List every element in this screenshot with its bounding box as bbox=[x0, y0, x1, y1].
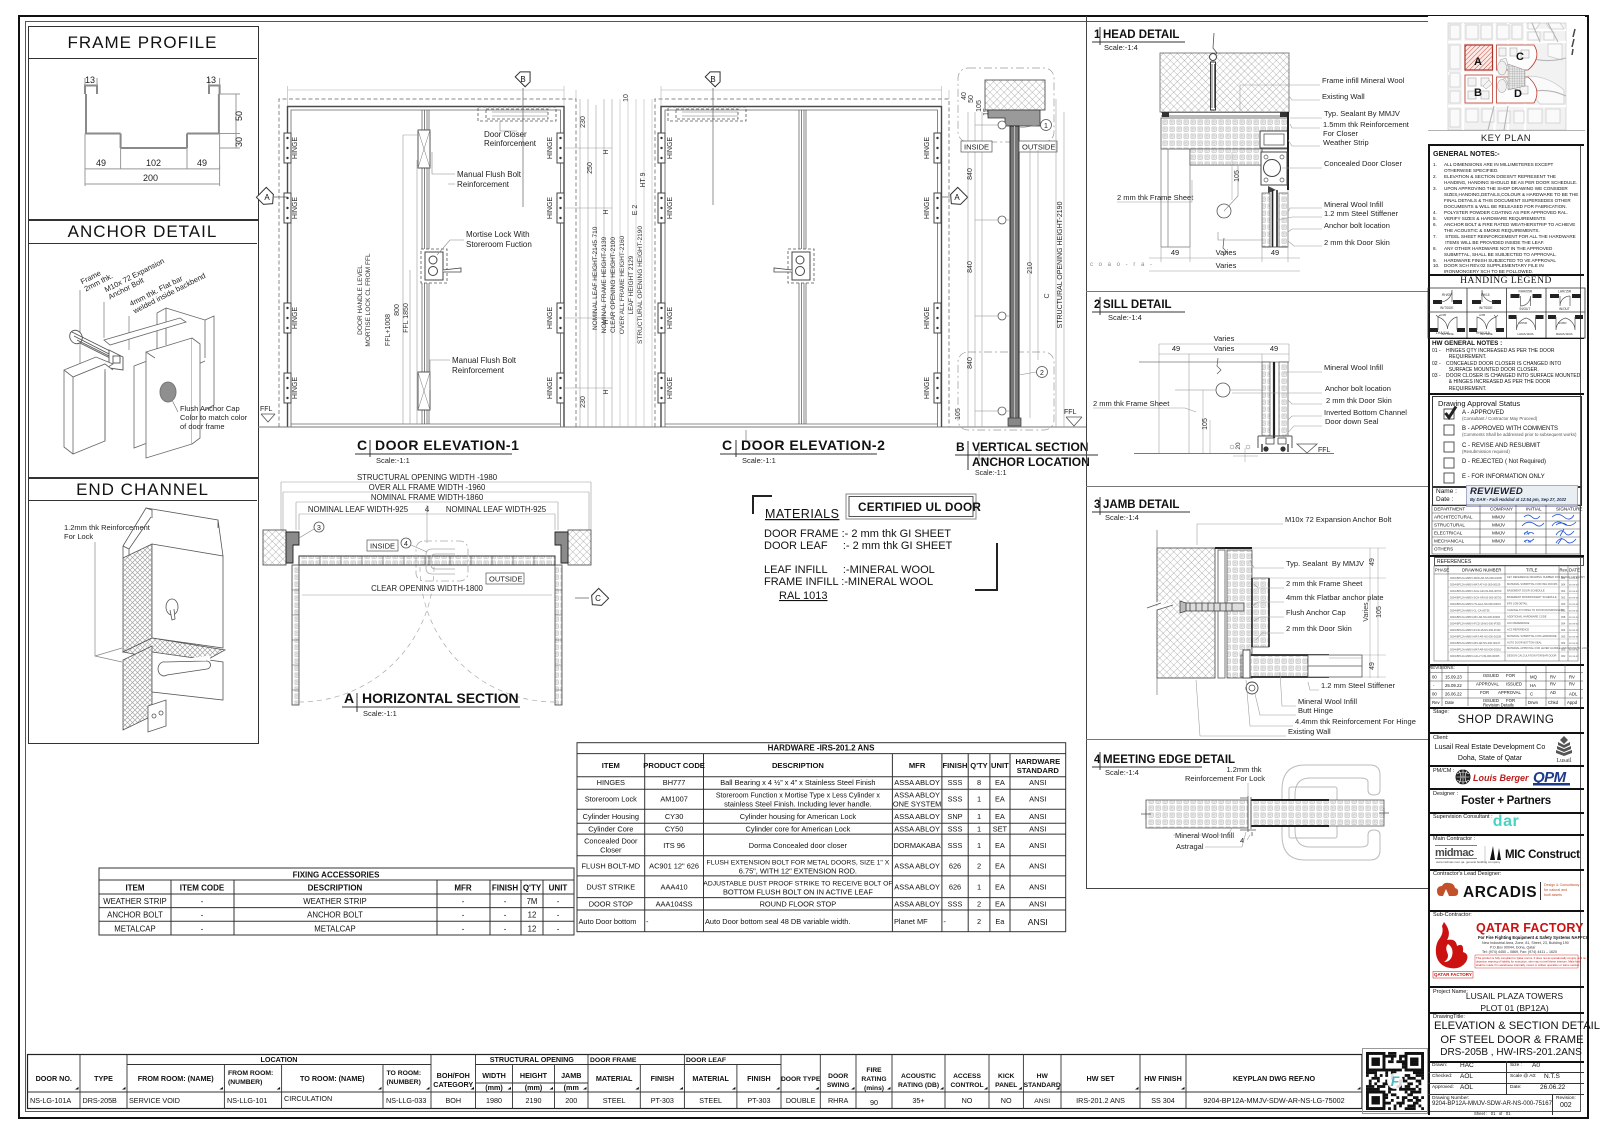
svg-text:SWING: SWING bbox=[827, 1082, 850, 1089]
svg-text:ACO REFERENCE: ACO REFERENCE bbox=[1507, 621, 1530, 625]
door leaf bbox=[1262, 362, 1270, 436]
svg-text:RHA/11A: RHA/11A bbox=[1476, 331, 1491, 335]
svg-text:CONTROL: CONTROL bbox=[950, 1082, 983, 1089]
main contractor bbox=[1428, 834, 1584, 836]
right box with cap bbox=[146, 338, 192, 458]
name/date + reviewed stamp bbox=[1432, 487, 1582, 506]
door frame bbox=[288, 107, 942, 428]
leader lines bbox=[80, 290, 129, 372]
svg-text:MMJV: MMJV bbox=[1492, 531, 1506, 536]
keyhole bbox=[166, 599, 178, 615]
svg-text:ARCADIS: ARCADIS bbox=[1463, 884, 1537, 901]
svg-text:MIC Construct: MIC Construct bbox=[1505, 849, 1580, 861]
svg-text:For Fire Fighting Equipment &: For Fire Fighting Equipment & Safety Sys… bbox=[1478, 935, 1590, 940]
svg-text:STANDARD: STANDARD bbox=[1024, 1082, 1061, 1089]
svg-text:PANEL: PANEL bbox=[995, 1082, 1017, 1089]
svg-text:ELECTRICAL: ELECTRICAL bbox=[1434, 531, 1463, 536]
anchor detail drawing bbox=[0, 0, 260, 480]
svg-text:(mm): (mm) bbox=[485, 1083, 503, 1092]
svg-text:for natural and: for natural and bbox=[1544, 888, 1567, 892]
sub-contractor / QATAR FACTORY bbox=[1428, 910, 1584, 912]
key plan road grid bbox=[1448, 23, 1566, 130]
closer ghost center bbox=[416, 541, 468, 581]
svg-text:APPROVAL: APPROVAL bbox=[1498, 690, 1521, 695]
svg-text:xx-xx-xx: xx-xx-xx bbox=[1569, 584, 1579, 587]
section marker B elev1 bbox=[515, 67, 535, 87]
dim text rows bbox=[308, 473, 547, 514]
svg-text:-: - bbox=[1433, 683, 1435, 688]
svg-text:www.midmac.com.qa general bui: www.midmac.com.qa general building compa… bbox=[1436, 860, 1501, 864]
butt hinge bbox=[1243, 650, 1250, 678]
svg-text:TITLE: TITLE bbox=[1526, 568, 1538, 573]
svg-text:00: 00 bbox=[1432, 675, 1437, 680]
frame profile channel outline bbox=[85, 86, 220, 149]
frame profile panel bbox=[28, 26, 259, 221]
svg-text:FINISH: FINISH bbox=[747, 1074, 771, 1083]
svg-text:15.09.23: 15.09.23 bbox=[1445, 675, 1462, 680]
svg-text:DOUBLE: DOUBLE bbox=[786, 1096, 816, 1105]
svg-text:ACCESS: ACCESS bbox=[953, 1073, 981, 1080]
svg-text:90: 90 bbox=[870, 1098, 878, 1107]
flush anchor cap bbox=[160, 382, 176, 402]
svg-text:BOH/FOH: BOH/FOH bbox=[437, 1071, 470, 1080]
svg-text:(NUMBER): (NUMBER) bbox=[387, 1079, 421, 1086]
svg-text:IN/TSIDE: IN/TSIDE bbox=[1479, 306, 1492, 310]
inner buildings bbox=[1468, 48, 1529, 99]
svg-text:TO ROOM:: TO ROOM: bbox=[387, 1070, 422, 1077]
door leaves plan strip bbox=[299, 556, 555, 565]
open leaves vertical bbox=[292, 565, 299, 705]
svg-text:A/05: A/05 bbox=[1479, 313, 1486, 317]
svg-text:9204-BP12A-MMJV-SDW-AR-NS-LG-7: 9204-BP12A-MMJV-SDW-AR-NS-LG-75002 bbox=[1203, 1096, 1344, 1105]
svg-text:MATERIAL SUBMITTAL FOR NSH DOO: MATERIAL SUBMITTAL FOR NSH DOORS bbox=[1507, 582, 1558, 586]
svg-text:(Resubmission required): (Resubmission required) bbox=[1462, 449, 1510, 454]
bottom plate bbox=[148, 700, 166, 732]
project name bbox=[1428, 986, 1584, 988]
svg-text:E - FOR INFORMATION ONLY: E - FOR INFORMATION ONLY bbox=[1462, 474, 1545, 480]
frame channel boxes isometric bbox=[64, 308, 214, 458]
svg-text:KEYPLAN DWG REF.NO: KEYPLAN DWG REF.NO bbox=[1233, 1074, 1316, 1083]
svg-text:D: D bbox=[1514, 88, 1522, 100]
existing wall bbox=[1157, 548, 1215, 678]
svg-text:005: 005 bbox=[1561, 635, 1566, 639]
svg-text:MQ: MQ bbox=[1530, 675, 1538, 680]
door leaf horizontal bbox=[1241, 655, 1308, 677]
svg-text:LHRA/11RA: LHRA/11RA bbox=[1518, 332, 1534, 336]
svg-text:DOOR: DOOR bbox=[828, 1073, 848, 1080]
svg-text:STRUCTURAL OPENING: STRUCTURAL OPENING bbox=[490, 1055, 575, 1064]
svg-text:xx-xx-xx: xx-xx-xx bbox=[1569, 603, 1579, 606]
right dims bbox=[1370, 548, 1378, 678]
motorway curves right bbox=[1488, 23, 1566, 130]
svg-text:D - REJECTED ( Not Required): D - REJECTED ( Not Required) bbox=[1462, 459, 1546, 465]
svg-text:9204-BP12A-MMJV-RFI-AR-NS-000-: 9204-BP12A-MMJV-RFI-AR-NS-000-00092 bbox=[1450, 615, 1501, 619]
svg-text:RH/05: RH/05 bbox=[1442, 293, 1451, 297]
svg-text:xx-xx-xx: xx-xx-xx bbox=[1569, 636, 1579, 639]
svg-text:Rev.: Rev. bbox=[1560, 568, 1568, 573]
svg-text:BOH: BOH bbox=[445, 1096, 461, 1105]
svg-text:PT-303: PT-303 bbox=[651, 1096, 674, 1105]
svg-text:Date: Date bbox=[1445, 700, 1455, 705]
svg-text:FROM ROOM:: FROM ROOM: bbox=[228, 1070, 273, 1077]
callout rounded boxes bbox=[958, 68, 1054, 430]
door pocket bbox=[1252, 578, 1269, 647]
svg-text:(mm): (mm) bbox=[525, 1083, 543, 1092]
head labels right bbox=[1322, 76, 1410, 247]
floor line FFL bbox=[258, 426, 1086, 428]
left hatched face top bbox=[123, 544, 152, 652]
svg-text:ARCHITECTURAL: ARCHITECTURAL bbox=[1434, 515, 1473, 520]
svg-text:STRUCTURAL: STRUCTURAL bbox=[1434, 523, 1465, 528]
svg-text:FINISH: FINISH bbox=[651, 1074, 675, 1083]
svg-text:ADDITIONAL HARDWARE CODE: ADDITIONAL HARDWARE CODE bbox=[1507, 615, 1547, 619]
svg-text:xx-xx-xx: xx-xx-xx bbox=[1569, 610, 1579, 613]
svg-text:008: 008 bbox=[1561, 615, 1566, 619]
svg-text:NS-LLG-033: NS-LLG-033 bbox=[386, 1096, 426, 1105]
rotated height dim labels between elevations bbox=[592, 226, 644, 344]
svg-text:HW FINISH: HW FINISH bbox=[1144, 1074, 1182, 1083]
end channel drawing bbox=[0, 0, 260, 760]
anchor detail panel bbox=[28, 219, 259, 479]
svg-text:004: 004 bbox=[1561, 583, 1566, 587]
jamb labels bbox=[1286, 559, 1416, 736]
vertical section titles bbox=[956, 440, 1090, 469]
svg-text:NS-LLG-101: NS-LLG-101 bbox=[227, 1096, 267, 1105]
svg-text:NO: NO bbox=[1001, 1096, 1012, 1105]
svg-text:EPS JOB DETAIL: EPS JOB DETAIL bbox=[1507, 602, 1528, 606]
anchor circles bbox=[998, 121, 1006, 415]
svg-text:xx-xx-xx: xx-xx-xx bbox=[1569, 577, 1579, 580]
svg-text:RV: RV bbox=[1569, 675, 1575, 680]
svg-text:DOOR TYPE: DOOR TYPE bbox=[781, 1076, 821, 1083]
svg-text:R/05R: R/05R bbox=[1558, 321, 1567, 325]
QR code bbox=[1365, 1051, 1425, 1111]
svg-text:9204-BP12A-MMJV-MAT-AR-NS-000-: 9204-BP12A-MMJV-MAT-AR-NS-000-00109 bbox=[1450, 635, 1502, 639]
left box bbox=[64, 357, 113, 454]
door slab bbox=[1010, 126, 1019, 422]
svg-text:Y.K: Y.K bbox=[1524, 539, 1532, 544]
central towers bbox=[1508, 64, 1525, 90]
top dim line elev1 bbox=[288, 86, 577, 106]
svg-text:RV: RV bbox=[1550, 675, 1556, 680]
svg-text:004: 004 bbox=[1561, 641, 1566, 645]
designer bbox=[1428, 788, 1584, 790]
svg-text:PT-303: PT-303 bbox=[747, 1096, 770, 1105]
svg-text:R/05R: R/05R bbox=[1519, 321, 1528, 325]
finder squares bbox=[1367, 1053, 1422, 1108]
flat bar diagonal bbox=[104, 318, 186, 345]
svg-text:ACS REFERENCE: ACS REFERENCE bbox=[1507, 628, 1529, 632]
svg-text:Chkd: Chkd bbox=[1548, 700, 1559, 705]
svg-text:MATERIAL SUBMITTAL FOR HARDWAR: MATERIAL SUBMITTAL FOR HARDWARE bbox=[1507, 634, 1557, 638]
svg-text:FROM ROOM: (NAME): FROM ROOM: (NAME) bbox=[138, 1074, 214, 1083]
svg-text:BASEMENT DOOR SCHEDULE: BASEMENT DOOR SCHEDULE bbox=[1507, 589, 1545, 593]
door leaves bbox=[1146, 800, 1248, 828]
svg-text:9204-BP12A-MMJV-IFCD-18-NS-000: 9204-BP12A-MMJV-IFCD-18-NS-000-IF305 bbox=[1450, 622, 1501, 626]
svg-text:002: 002 bbox=[1561, 589, 1566, 593]
svg-text:(Comments Shall be addressed p: (Comments Shall be addressed prior to su… bbox=[1462, 432, 1577, 437]
frame profile drawing bbox=[0, 0, 260, 200]
front face top bbox=[152, 544, 223, 648]
circled detail numbers bbox=[1037, 120, 1052, 378]
big C ghost bbox=[1282, 765, 1380, 860]
svg-text:IN/OUT: IN/OUT bbox=[1559, 307, 1570, 311]
sill labels bbox=[1324, 363, 1407, 426]
svg-text:Lusail: Lusail bbox=[1557, 758, 1572, 764]
svg-text:P.O.Box 90044, Doha, Qatar: P.O.Box 90044, Doha, Qatar bbox=[1490, 946, 1536, 950]
svg-text:9204-BP12A-MMJV-SCH-AR-NS-000-: 9204-BP12A-MMJV-SCH-AR-NS-000-00750 bbox=[1450, 596, 1502, 600]
svg-text:(mins): (mins) bbox=[864, 1085, 884, 1092]
svg-text:DEPARTMENT: DEPARTMENT bbox=[1434, 507, 1465, 512]
svg-text:005: 005 bbox=[1561, 609, 1566, 613]
swing arcs bbox=[299, 567, 555, 702]
svg-text:MATERIAL: MATERIAL bbox=[596, 1074, 633, 1083]
contractor's lead designer / ARCADIS bbox=[1428, 869, 1584, 871]
svg-text:xx-xx-xx: xx-xx-xx bbox=[1569, 623, 1579, 626]
svg-text:xx-xx-xx: xx-xx-xx bbox=[1569, 649, 1579, 652]
svg-text:ADL: ADL bbox=[1569, 692, 1578, 697]
block D wing bbox=[1497, 77, 1537, 103]
embedded anchor bolt bbox=[1210, 54, 1217, 61]
door closer reinforcement dashed box elev1 bbox=[478, 107, 556, 121]
svg-text:Design & Consultancy: Design & Consultancy bbox=[1544, 883, 1580, 887]
FFL marker left bbox=[261, 414, 275, 422]
svg-text:RHRA: RHRA bbox=[828, 1096, 849, 1105]
existing wall head bbox=[1160, 53, 1289, 112]
svg-text:HW: HW bbox=[1037, 1073, 1049, 1080]
door closer reinforcement dashed box elev2 (top-left) bbox=[668, 107, 746, 121]
stage bbox=[1428, 707, 1584, 709]
blue signatures bbox=[1522, 515, 1576, 545]
floor break marks bbox=[746, 430, 990, 459]
svg-text:MATERIAL: MATERIAL bbox=[692, 1074, 729, 1083]
back channel bbox=[157, 308, 214, 420]
svg-text:9204-BP12A-MMJV-MAT-AR-NS-000-: 9204-BP12A-MMJV-MAT-AR-NS-000-00210 bbox=[1450, 648, 1502, 652]
svg-text:xx-xx-xx: xx-xx-xx bbox=[1569, 642, 1579, 645]
general notes bbox=[1433, 147, 1579, 275]
anchor bolt cylinder bbox=[67, 328, 123, 370]
svg-text:NO: NO bbox=[962, 1096, 973, 1105]
svg-text:1980: 1980 bbox=[486, 1096, 502, 1105]
svg-text:004: 004 bbox=[1561, 622, 1566, 626]
svg-text:IRS-201.2 ANS: IRS-201.2 ANS bbox=[1076, 1096, 1125, 1105]
svg-text:Drwn: Drwn bbox=[1528, 700, 1539, 705]
svg-text:RATING: RATING bbox=[861, 1076, 886, 1083]
left rotated text stack elev2 bbox=[632, 172, 647, 215]
A marker left bbox=[256, 187, 277, 208]
circled refs bbox=[314, 522, 324, 532]
svg-text:STEEL: STEEL bbox=[603, 1096, 626, 1105]
sealant bbox=[1161, 113, 1288, 117]
door leaf below bbox=[1262, 193, 1270, 247]
svg-text:Appd: Appd bbox=[1567, 700, 1578, 705]
svg-text:MMJV: MMJV bbox=[1492, 515, 1506, 520]
frame head mineral wool bbox=[1161, 118, 1288, 149]
inverted bottom channel bbox=[1258, 436, 1292, 448]
svg-text:New Industrial Area, Zone, 81,: New Industrial Area, Zone, 81, Street, 2… bbox=[1482, 941, 1569, 945]
svg-text:CHANGE AT FINISH TO DOOR IRONM: CHANGE AT FINISH TO DOOR IRONMONGERY bbox=[1507, 608, 1565, 612]
block B bbox=[1465, 75, 1493, 103]
middle step box bbox=[134, 358, 155, 448]
svg-text:LH/15: LH/15 bbox=[1481, 293, 1490, 297]
svg-text:DOOR LEAF: DOOR LEAF bbox=[686, 1057, 726, 1064]
key plan bbox=[1428, 16, 1585, 144]
hinges elevation-1 bbox=[284, 133, 564, 403]
svg-text:RV: RV bbox=[1569, 682, 1575, 687]
lusail tree logo bbox=[1548, 735, 1580, 763]
svg-text:002: 002 bbox=[1561, 654, 1566, 658]
QR corner brackets bbox=[1362, 1048, 1428, 1114]
structural opening dashed outline bbox=[279, 99, 576, 427]
svg-text:SS 304: SS 304 bbox=[1151, 1096, 1175, 1105]
svg-text:I.K: I.K bbox=[1524, 531, 1531, 536]
svg-text:COMPANY: COMPANY bbox=[1490, 507, 1513, 512]
svg-text:25.09.22: 25.09.22 bbox=[1445, 683, 1462, 688]
svg-text:Tel: (974) 4450 – 0869, Fax: (: Tel: (974) 4450 – 0869, Fax: (974) 4411 … bbox=[1482, 950, 1557, 954]
svg-text:MECHANICAL: MECHANICAL bbox=[1434, 539, 1465, 544]
svg-text:ACOUSTIC: ACOUSTIC bbox=[901, 1073, 936, 1080]
svg-text:QATAR FACTORY: QATAR FACTORY bbox=[1476, 921, 1584, 935]
svg-text:9204-BP12A-MMJV-DIS-AR-NS-000-: 9204-BP12A-MMJV-DIS-AR-NS-000-00147 bbox=[1450, 641, 1501, 645]
bottom dims bbox=[1161, 190, 1288, 262]
svg-text:xx-xx-xx: xx-xx-xx bbox=[1569, 616, 1579, 619]
svg-text:MMJV: MMJV bbox=[1492, 539, 1506, 544]
svg-text:9204-BP12A-MMJV-CL-CA-00736: 9204-BP12A-MMJV-CL-CA-00736 bbox=[1450, 609, 1490, 613]
handing cells row2: double doors bbox=[1430, 313, 1583, 336]
svg-text:ISSUED: ISSUED bbox=[1483, 673, 1499, 678]
svg-text:001: 001 bbox=[1561, 576, 1566, 580]
svg-text:xx-xx-xx: xx-xx-xx bbox=[1569, 655, 1579, 658]
svg-text:KICK: KICK bbox=[998, 1073, 1015, 1080]
left wall block bbox=[263, 530, 286, 565]
frame head bbox=[988, 110, 1040, 126]
svg-text:(Consultant / Contractor May P: (Consultant / Contractor May Proceed) bbox=[1462, 416, 1538, 421]
svg-text:DRAWING NUMBER: DRAWING NUMBER bbox=[1462, 568, 1501, 573]
svg-text:LHR/15R: LHR/15R bbox=[1558, 290, 1572, 294]
svg-text:AD: AD bbox=[1550, 690, 1556, 695]
svg-text:HW SET: HW SET bbox=[1087, 1074, 1116, 1083]
svg-text:2190: 2190 bbox=[526, 1096, 542, 1105]
teal logo centre bbox=[1387, 1073, 1403, 1089]
left frame lines bbox=[1161, 149, 1190, 247]
svg-text:PHASE: PHASE bbox=[1435, 568, 1449, 573]
frame jambs bbox=[286, 532, 299, 563]
right dim lines bbox=[1030, 99, 1064, 427]
reinforcement plate between bbox=[123, 638, 225, 666]
C marker right bbox=[587, 588, 608, 609]
hardware table bbox=[0, 0, 1100, 950]
svg-text:JAMB: JAMB bbox=[561, 1071, 581, 1080]
client bbox=[1428, 732, 1584, 734]
FFL right bbox=[1066, 417, 1082, 426]
svg-text:004: 004 bbox=[1561, 628, 1566, 632]
svg-text:CIRCULATION: CIRCULATION bbox=[284, 1094, 332, 1103]
svg-text:OTHERS: OTHERS bbox=[1434, 547, 1453, 552]
svg-text:9204-BP12A-MMJV-CAL-IT-NS-000-: 9204-BP12A-MMJV-CAL-IT-NS-000-00005 bbox=[1450, 654, 1500, 658]
svg-text:FOR: FOR bbox=[1506, 673, 1515, 678]
lock elev2 (handle to left) bbox=[788, 249, 814, 283]
svg-text:26.06.22: 26.06.22 bbox=[1445, 692, 1462, 697]
svg-text:ISSUED: ISSUED bbox=[1506, 682, 1522, 687]
top line bbox=[1139, 361, 1289, 363]
svg-text:INITIAL: INITIAL bbox=[1526, 507, 1542, 512]
mortise lock elev1 bbox=[421, 249, 447, 283]
svg-text:C: C bbox=[1516, 51, 1524, 63]
svg-text:QATAR FACTORY: QATAR FACTORY bbox=[1434, 972, 1472, 977]
svg-text:(mm: (mm bbox=[564, 1083, 579, 1092]
end channel label bbox=[64, 523, 151, 541]
svg-text:TO ROOM: (NAME): TO ROOM: (NAME) bbox=[300, 1074, 365, 1083]
svg-text:(NUMBER): (NUMBER) bbox=[228, 1079, 262, 1086]
svg-text:9204-BP12A-MMJV-ITL-ELA-NS-000: 9204-BP12A-MMJV-ITL-ELA-NS-000-00001 bbox=[1450, 602, 1501, 606]
block A highlighted red hatch bbox=[1465, 45, 1493, 70]
svg-text:9204-BP12A-MMJV-SDW-AR-NS-000-: 9204-BP12A-MMJV-SDW-AR-NS-000-00205 bbox=[1450, 576, 1502, 580]
labels elev1 bbox=[452, 130, 537, 375]
supervision consultant bbox=[1428, 812, 1584, 814]
inside/outside labels bbox=[961, 141, 1057, 152]
svg-text:LHA/11A: LHA/11A bbox=[1436, 331, 1450, 335]
inside outside bbox=[367, 540, 524, 584]
svg-text:Louis Berger: Louis Berger bbox=[1473, 773, 1529, 783]
svg-text:APPROVAL: APPROVAL bbox=[1476, 682, 1499, 687]
svg-text:RHR/05R: RHR/05R bbox=[1519, 290, 1533, 294]
handle bbox=[168, 658, 210, 664]
block C wing bbox=[1497, 45, 1537, 70]
svg-text:DESIGN CALCULATION FOR BAR DOO: DESIGN CALCULATION FOR BAR DOOR bbox=[1507, 654, 1557, 658]
frame sheet + infill bbox=[1215, 547, 1252, 549]
weather strip pocket bbox=[1260, 131, 1288, 148]
drawing approval status bbox=[1428, 393, 1584, 395]
svg-text:RHRA/11RA: RHRA/11RA bbox=[1556, 332, 1573, 336]
revisions table bbox=[1428, 664, 1584, 666]
FFL line bbox=[1134, 453, 1334, 455]
svg-text:KEY PLAN: KEY PLAN bbox=[1481, 133, 1531, 144]
titles elev2 bbox=[722, 437, 885, 453]
svg-text:NS-LG-101A: NS-LG-101A bbox=[30, 1096, 71, 1105]
svg-text:RATING (DB): RATING (DB) bbox=[898, 1082, 939, 1089]
svg-text:DRS-205B: DRS-205B bbox=[83, 1096, 118, 1105]
right dim stack elev1 bbox=[564, 99, 612, 427]
A marker right elev2 bbox=[946, 187, 967, 208]
handing legend bbox=[1428, 274, 1584, 276]
svg-text:shall be made if in warehouse: shall be made if in warehouse internally… bbox=[1476, 963, 1580, 967]
end channel panel bbox=[28, 477, 259, 744]
pmcm bbox=[1428, 765, 1584, 767]
references table bbox=[1428, 555, 1584, 557]
svg-text:005: 005 bbox=[1561, 648, 1566, 652]
svg-text:built assets: built assets bbox=[1544, 893, 1562, 897]
title horizontal section bbox=[344, 690, 519, 706]
svg-text:9204-BP12A-MMJV-MAT-AT-NS-000-: 9204-BP12A-MMJV-MAT-AT-NS-000-00109 bbox=[1450, 583, 1501, 587]
svg-text:IN/OUT: IN/OUT bbox=[1520, 307, 1531, 311]
title block bottom rows bbox=[1428, 1061, 1584, 1063]
svg-text:midmac: midmac bbox=[1435, 847, 1474, 859]
svg-text:DOOR FRAME: DOOR FRAME bbox=[590, 1057, 637, 1064]
svg-text:003: 003 bbox=[1561, 602, 1566, 606]
svg-text:Rev: Rev bbox=[1432, 700, 1440, 705]
svg-text:002: 002 bbox=[1561, 596, 1566, 600]
existing wall head bbox=[985, 80, 1045, 110]
details drawings svg bbox=[0, 0, 1430, 900]
svg-text:9204-BP12A-MMJV-IFCD-18-NS-000: 9204-BP12A-MMJV-IFCD-18-NS-000-IF302 bbox=[1450, 628, 1501, 632]
svg-text:RV: RV bbox=[1550, 682, 1556, 687]
flame logo bbox=[1436, 922, 1468, 968]
svg-text:A: A bbox=[1474, 56, 1482, 68]
svg-text:AUTO DOOR BOTTOM SEAL: AUTO DOOR BOTTOM SEAL bbox=[1507, 641, 1542, 645]
inner leaf dim lines elev1 bbox=[403, 135, 420, 424]
svg-text:BASEMENT IRONMONGERY SCHEDULE: BASEMENT IRONMONGERY SCHEDULE bbox=[1507, 595, 1557, 599]
svg-text:9204-BP12A-MMJV-SCH-AR-NS-000-: 9204-BP12A-MMJV-SCH-AR-NS-000-00700 bbox=[1450, 589, 1502, 593]
